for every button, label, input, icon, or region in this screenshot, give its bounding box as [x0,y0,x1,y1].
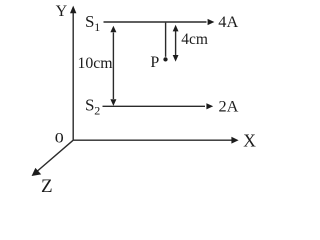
svg-text:0: 0 [55,130,64,146]
svg-text:2: 2 [94,104,100,118]
svg-text:Y: Y [56,3,68,20]
svg-text:X: X [243,130,256,150]
svg-text:Z: Z [41,176,53,196]
svg-text:4A: 4A [218,12,238,31]
svg-text:P: P [150,54,159,71]
svg-text:10cm: 10cm [78,55,114,72]
svg-text:S: S [85,12,94,31]
svg-text:S: S [85,96,94,115]
svg-text:1: 1 [94,20,100,34]
svg-text:2A: 2A [219,97,239,116]
svg-text:4cm: 4cm [181,31,208,48]
